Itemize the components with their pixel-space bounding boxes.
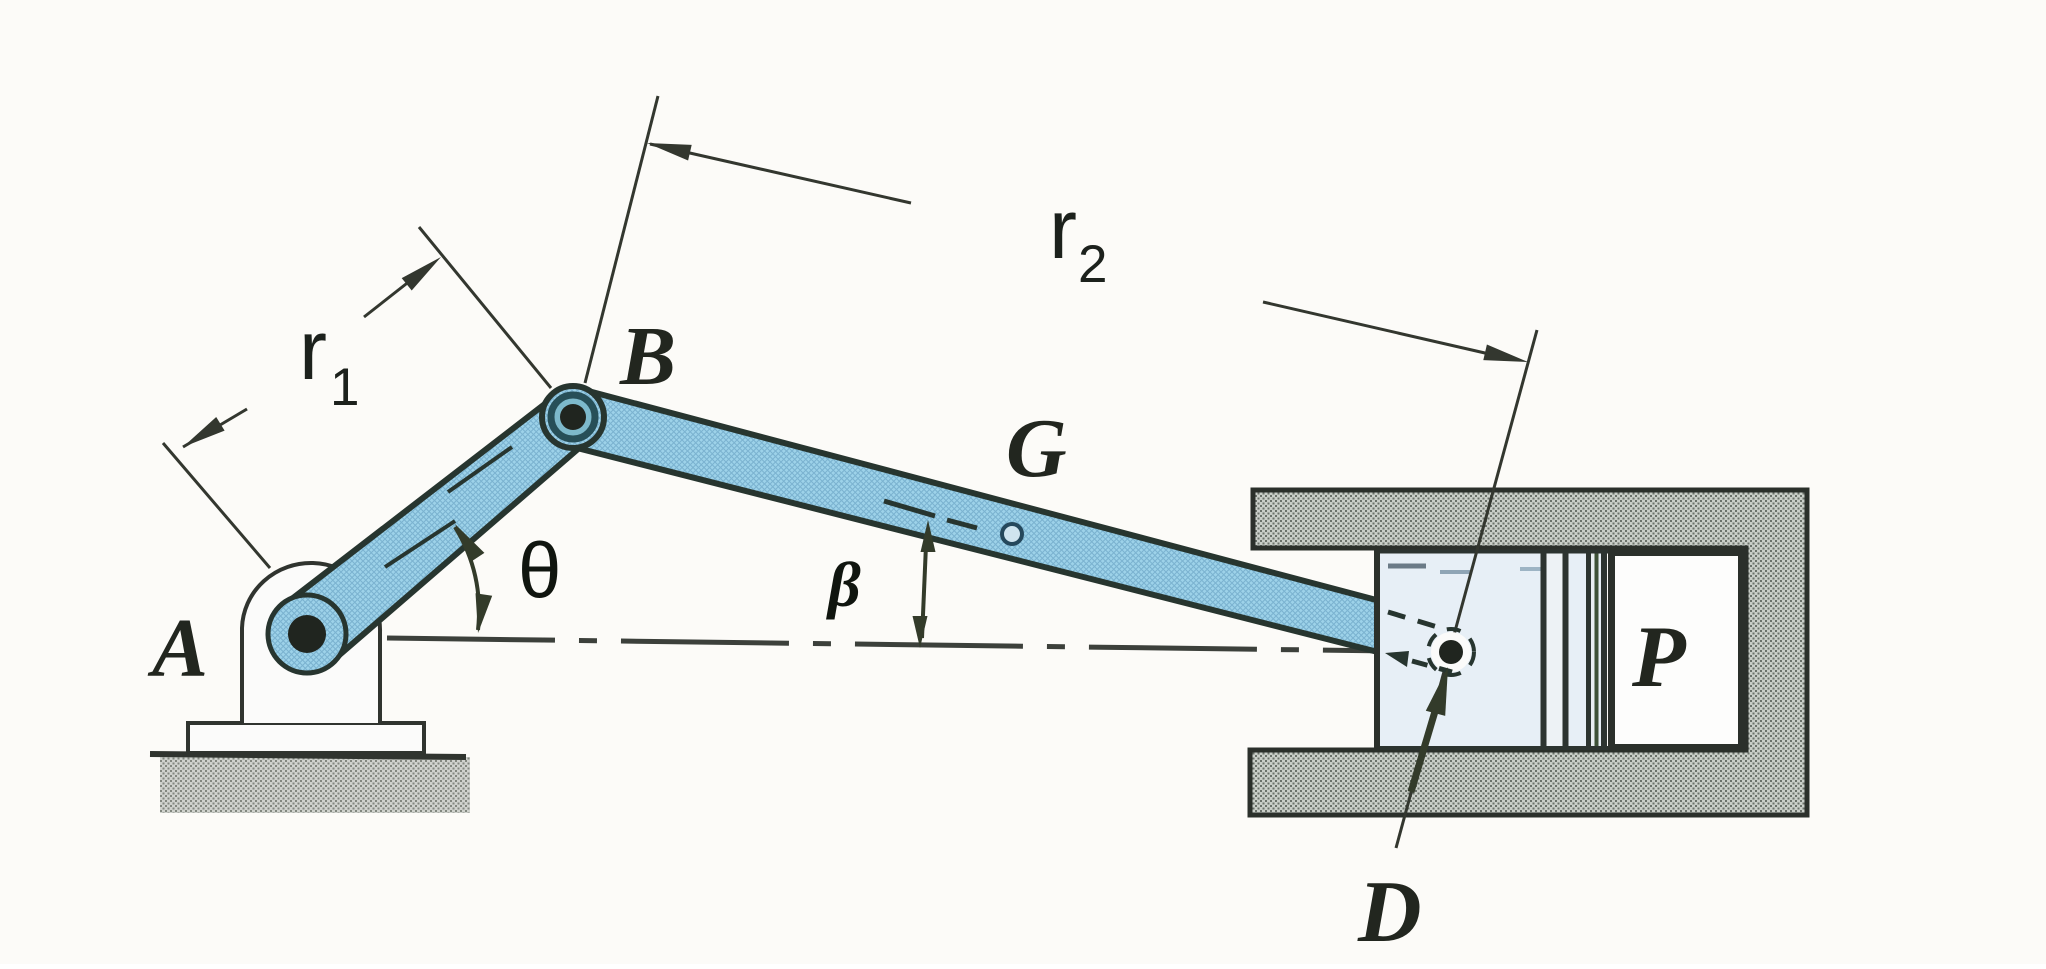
piston bottom edge line [1377, 746, 1610, 750]
connecting rod BD (clipped at piston face) [566, 389, 1377, 652]
dimension r1 lower segment [183, 409, 247, 447]
arrowhead theta bottom [476, 593, 493, 633]
svg-text:r: r [1049, 182, 1077, 276]
arrowhead theta top [455, 524, 484, 562]
hidden rod bottom dashed line [1412, 661, 1452, 672]
piston surface marks [1388, 564, 1426, 569]
ground line [150, 754, 466, 757]
piston light-blue body [1378, 551, 1606, 749]
svg-text:D: D [1357, 864, 1422, 961]
extension line through D (perp to rod) [1396, 330, 1537, 848]
hidden rod top dashed line [1388, 612, 1444, 629]
arrowhead beta bottom [913, 616, 928, 648]
svg-text:B: B [619, 310, 676, 403]
extension line through B perp to crank [419, 227, 551, 388]
hidden rod end: white circle under pin D [1431, 632, 1471, 672]
theta arc arrow [455, 527, 479, 630]
baseplate of pivot support [188, 723, 424, 753]
boss at A [268, 595, 346, 673]
arrowhead r1 upper [402, 257, 441, 291]
arrowhead r2 right [1483, 345, 1528, 363]
crank inner slit lines [385, 521, 455, 567]
dimension r2 left segment [650, 144, 911, 203]
dimension r2 right segment [1263, 302, 1498, 356]
pin B [560, 404, 586, 430]
piston left face [1374, 548, 1380, 750]
svg-text:P: P [1631, 609, 1687, 706]
svg-text:G: G [1006, 402, 1067, 495]
arrowhead beta top [921, 520, 936, 552]
arrowhead r2 left [647, 143, 692, 161]
svg-text:1: 1 [330, 358, 359, 417]
piston top edge line [1377, 550, 1610, 554]
arrowhead r1 lower [183, 417, 225, 447]
svg-text:β: β [826, 549, 861, 620]
svg-text:2: 2 [1078, 235, 1107, 294]
cylinder block (hatched C-shape) [1250, 490, 1807, 815]
dimension r1 upper segment [364, 273, 420, 317]
boss at B [551, 395, 595, 439]
ground hatch block under support A [160, 757, 470, 813]
pivot mount dome at A [242, 563, 380, 723]
arrowhead at pin D [1426, 667, 1448, 716]
extension line through A (perp to crank) [163, 443, 270, 568]
svg-text:A: A [147, 602, 208, 695]
svg-text:θ: θ [518, 526, 561, 614]
piston ring lines [1546, 553, 1563, 748]
centerline A to D (dash-dot) [387, 638, 1392, 651]
crank cap at B [542, 386, 604, 448]
arrow from D label to pin [1411, 708, 1436, 792]
svg-text:r: r [299, 303, 327, 397]
pin A [288, 615, 326, 653]
extension line through B perp to rod [585, 96, 658, 383]
small arrowhead pointing left near pin D [1385, 651, 1409, 667]
dashed circle around pin D [1428, 629, 1474, 675]
mass center circle G [1002, 524, 1022, 544]
pin D [1439, 640, 1463, 664]
beta arrow [922, 545, 926, 638]
rod center dashes near G [884, 501, 935, 516]
crank AB [284, 396, 591, 663]
pressure chamber box P [1612, 553, 1742, 748]
